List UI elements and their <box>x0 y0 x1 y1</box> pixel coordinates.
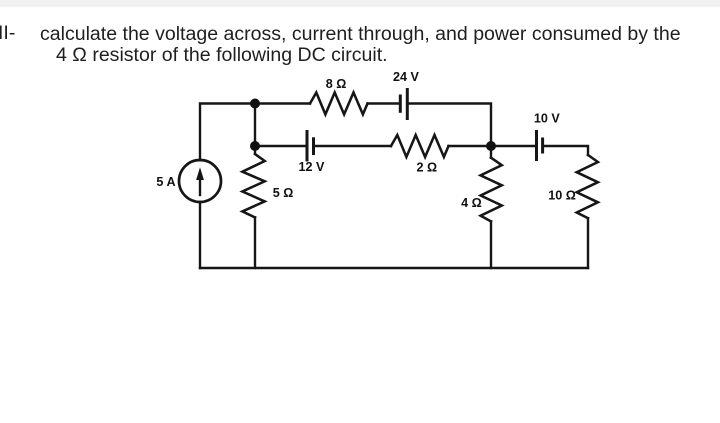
wire: bottom rail <box>200 267 588 269</box>
resistor 8Ω (zigzag) <box>310 93 368 115</box>
svg-text:5 Ω: 5 Ω <box>273 186 294 200</box>
node A junction dot <box>250 99 260 109</box>
wire: 5-ohm resistor to bottom wire <box>254 217 256 268</box>
resistor 4Ω (vertical zigzag) <box>481 158 502 222</box>
problem number II- <box>0 24 15 43</box>
wire: 10-ohm resistor to bottom wire <box>587 218 589 268</box>
wire: left vertical + top wire to 8-ohm resistor <box>200 104 310 161</box>
svg-text:5 A: 5 A <box>156 175 175 189</box>
wire: 10V battery to right corner down to 10-ohm resistor <box>543 146 588 155</box>
svg-text:2 Ω: 2 Ω <box>416 161 437 175</box>
wire: mid node down to 5-ohm resistor <box>254 146 256 154</box>
top gray strip <box>0 0 720 8</box>
svg-text:10 V: 10 V <box>534 112 561 126</box>
battery 24V long plate <box>406 90 409 119</box>
current source 5A circle <box>179 160 221 202</box>
wire: node A vertical (top node to mid node) <box>254 104 256 147</box>
wire: mid node to 12V battery <box>255 145 307 147</box>
svg-text:10 Ω: 10 Ω <box>548 189 576 203</box>
wire: 12V battery to 2-ohm resistor <box>314 145 392 147</box>
wire: 4-ohm resistor to bottom wire <box>490 221 492 268</box>
wire: current source bottom lead <box>199 202 201 268</box>
battery 12V long plate <box>306 132 309 161</box>
wire: 2-ohm resistor to node B <box>449 145 492 147</box>
node B junction dot <box>486 141 496 151</box>
current source arrowhead <box>196 167 204 180</box>
problem text line 2 <box>56 46 388 64</box>
svg-text:24 V: 24 V <box>393 70 420 84</box>
resistor 5Ω (vertical zigzag) <box>242 154 264 217</box>
svg-text:12 V: 12 V <box>299 160 326 174</box>
svg-text:8 Ω: 8 Ω <box>326 77 347 91</box>
resistor 10Ω (vertical zigzag) <box>577 155 598 218</box>
battery 24V short plate <box>399 96 402 111</box>
resistor 2Ω (zigzag) <box>391 135 449 157</box>
battery 10V long plate <box>535 132 538 160</box>
wire: 8-ohm to 24V battery <box>368 102 401 104</box>
wire: node B down to 4-ohm resistor <box>490 146 492 158</box>
svg-text:4 Ω: 4 Ω <box>461 196 482 210</box>
battery 10V short plate <box>541 139 544 152</box>
problem text line 1 <box>40 25 681 43</box>
wire: node B to 10V battery <box>491 145 537 147</box>
wire: 24V battery to top-right corner, down to node B <box>407 104 491 147</box>
battery 12V short plate <box>312 139 315 154</box>
node C junction dot <box>250 141 260 151</box>
current source arrow shaft <box>199 175 201 195</box>
